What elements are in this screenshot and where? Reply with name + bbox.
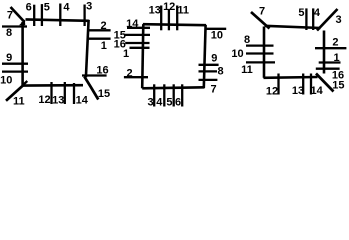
svg-text:2: 2	[127, 67, 133, 79]
svg-text:15: 15	[98, 88, 110, 100]
svg-text:2: 2	[100, 20, 106, 32]
svg-text:12: 12	[163, 1, 175, 13]
IC package U2 outline bottom edge	[142, 87, 204, 88]
U2 pin 3 lead	[153, 84, 155, 106]
U2 pin 12 lead	[168, 9, 170, 30]
svg-text:10: 10	[211, 29, 223, 41]
U1 pin 4 lead	[59, 4, 61, 27]
U3 pin 1 lead	[319, 61, 341, 63]
U1 pin 11 diagonal lead	[6, 85, 23, 101]
U1 pin 7 corner arrowhead	[19, 20, 25, 26]
svg-text:14: 14	[76, 95, 89, 107]
U1 pin 16 lead	[82, 74, 107, 76]
IC package U3 outline left edge	[263, 27, 266, 78]
svg-text:11: 11	[13, 96, 25, 108]
IC package U1 outline bottom edge	[22, 84, 83, 87]
svg-text:5: 5	[298, 7, 304, 19]
U1 pin 7 diagonal lead	[11, 7, 25, 22]
svg-text:14: 14	[310, 85, 323, 97]
svg-text:3: 3	[86, 0, 92, 12]
svg-text:4: 4	[156, 97, 163, 109]
U3 pin 16 lead	[316, 68, 340, 70]
U1 pin 13 lead	[64, 82, 66, 104]
U2 pin 5 lead	[173, 84, 175, 106]
U3 pin 3 diagonal lead	[317, 9, 338, 31]
U3 pin 13 lead	[302, 74, 304, 95]
svg-text:8: 8	[244, 34, 250, 46]
svg-text:7: 7	[7, 10, 13, 22]
svg-text:8: 8	[6, 27, 12, 39]
U1 pin 3 lead	[83, 5, 85, 27]
U2 pin 10 lead	[206, 28, 227, 30]
U1 pin 12 lead	[50, 82, 52, 104]
IC package U3 outline bottom edge	[264, 76, 318, 79]
svg-text:13: 13	[52, 94, 64, 106]
svg-text:1: 1	[101, 40, 107, 52]
svg-text:4: 4	[63, 2, 70, 14]
U3 pin 7 diagonal lead	[251, 12, 270, 29]
U3 pin 8 lead	[246, 44, 274, 46]
svg-text:9: 9	[211, 53, 217, 65]
U3 pin 10 lead	[246, 52, 274, 54]
U2 pin 9 lead	[199, 64, 219, 66]
svg-text:1: 1	[333, 52, 339, 64]
U3 pin 12 lead	[277, 74, 279, 95]
U2 pin 15 lead	[125, 34, 151, 36]
svg-text:8: 8	[217, 65, 223, 77]
U1 pin 2 lead	[89, 29, 111, 31]
U2 pin 11 lead	[176, 6, 178, 31]
U2 pin 6 lead	[181, 84, 183, 106]
IC package U2 outline right edge	[204, 25, 206, 88]
IC package U3 outline top edge	[265, 26, 321, 28]
svg-text:2: 2	[332, 37, 338, 49]
U2 pin 7 lead	[199, 79, 218, 81]
U1 pin 5 lead	[41, 4, 43, 26]
U3 pin 14 lead	[310, 74, 312, 95]
IC package U2 outline left edge	[142, 24, 143, 88]
U1 pin 11 corner tick	[23, 81, 27, 85]
U2 pin 16 lead	[125, 42, 149, 44]
svg-text:10: 10	[231, 48, 243, 60]
svg-text:5: 5	[44, 1, 50, 13]
IC package U2 outline top edge	[143, 24, 206, 25]
svg-text:4: 4	[314, 7, 321, 19]
U3 pin 4 lead	[312, 8, 314, 30]
U2 pin 14 lead	[127, 27, 150, 29]
svg-text:14: 14	[126, 18, 139, 30]
svg-text:11: 11	[241, 64, 253, 76]
svg-text:5: 5	[166, 97, 172, 109]
U1 pin 1 lead	[89, 38, 111, 40]
svg-text:16: 16	[96, 64, 108, 76]
U1 pin 6 lead	[33, 5, 35, 26]
U1 pin 9 lead	[2, 63, 28, 65]
svg-text:15: 15	[332, 80, 344, 92]
U3 pin 11 lead	[246, 61, 275, 63]
svg-text:3: 3	[336, 14, 342, 26]
U2 pin 1 lead	[130, 47, 150, 49]
U3 pin 5 lead	[305, 8, 307, 30]
IC package U1 outline left edge	[21, 22, 24, 85]
svg-text:10: 10	[0, 74, 12, 86]
IC package U1 outline right edge	[86, 20, 89, 78]
U2 pin 13 lead	[160, 6, 162, 31]
svg-text:13: 13	[292, 85, 304, 97]
svg-text:7: 7	[210, 83, 216, 95]
svg-text:1: 1	[123, 48, 129, 60]
IC package U3 outline right edge	[323, 31, 326, 74]
U3 pin 2 lead	[315, 47, 346, 49]
U3 pin 15 diagonal lead	[316, 74, 334, 92]
U1 pin 10 lead	[2, 70, 28, 72]
svg-text:9: 9	[6, 52, 12, 64]
svg-text:12: 12	[266, 85, 278, 97]
U1 pin 8 lead	[2, 25, 27, 27]
svg-text:7: 7	[259, 6, 265, 18]
svg-text:13: 13	[149, 4, 161, 16]
svg-text:12: 12	[38, 94, 50, 106]
svg-text:6: 6	[26, 1, 32, 13]
U1 pin 15 diagonal lead	[84, 77, 98, 100]
svg-text:6: 6	[175, 97, 181, 109]
IC package U1 outline top edge	[26, 19, 89, 20]
U2 pin 8 lead	[199, 70, 218, 72]
U2 pin 2 lead	[124, 76, 148, 78]
U1 pin 14 lead	[73, 83, 75, 104]
svg-text:3: 3	[147, 97, 153, 109]
U2 pin 4 lead	[163, 84, 165, 106]
svg-text:11: 11	[177, 4, 189, 16]
